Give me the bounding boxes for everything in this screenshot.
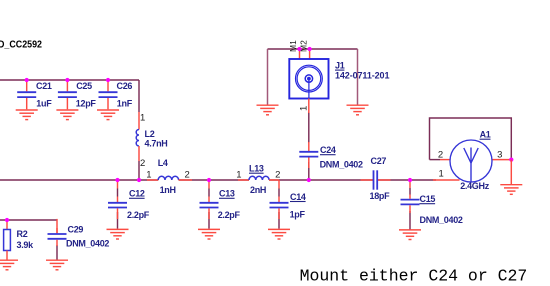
capacitor C14	[270, 180, 289, 219]
wire vertical from top net to L2	[138, 80, 140, 112]
capacitor C26	[99, 80, 118, 109]
capacitor C25	[58, 80, 77, 109]
ground under C25	[56, 110, 78, 120]
capacitor C29	[48, 228, 67, 246]
wire C29 bottom to ground	[56, 245, 58, 260]
svg-text:C15: C15	[420, 194, 436, 204]
svg-text:C12: C12	[129, 189, 145, 199]
ground under C15	[399, 230, 421, 240]
svg-text:2.2pF: 2.2pF	[218, 210, 241, 220]
ground under C26	[97, 110, 119, 120]
svg-text:2nH: 2nH	[250, 185, 266, 195]
wire lower net to R2/C29 y=220	[0, 219, 57, 221]
wire C13 bottom to ground	[208, 212, 210, 229]
svg-text:C14: C14	[290, 192, 306, 202]
wire J1 pin1 to C24	[308, 112, 310, 143]
wire C15 bottom to ground	[409, 211, 411, 230]
ground under C14	[268, 229, 290, 239]
svg-text:1: 1	[236, 170, 241, 181]
svg-text:DNM_0402: DNM_0402	[420, 215, 463, 225]
svg-text:2: 2	[275, 170, 280, 181]
ground under C21	[16, 110, 38, 120]
svg-text:C29: C29	[68, 225, 84, 235]
junction dot lower net at R2	[5, 218, 9, 222]
wire antenna pin3 to ground	[510, 160, 512, 184]
inductor L13	[238, 176, 279, 180]
svg-text:DNM_0402: DNM_0402	[320, 160, 363, 170]
ground J1 shield right	[347, 105, 369, 115]
svg-text:C21: C21	[36, 81, 52, 91]
wire C24 bottom to main net	[308, 162, 310, 180]
svg-text:2: 2	[438, 149, 443, 160]
svg-text:D_CC2592: D_CC2592	[0, 40, 42, 51]
capacitor C21	[17, 80, 36, 109]
ground at antenna pin3	[500, 185, 522, 195]
ground J1 shield left	[257, 105, 279, 115]
junction dot top net at C25	[65, 78, 69, 82]
wire antenna loop pin2 to pin3/ground	[430, 118, 512, 160]
junction dot main net at L2	[137, 178, 141, 182]
wire C14 bottom to ground	[278, 212, 280, 229]
wire top net segment y=80	[0, 79, 139, 81]
junction dot J1 shield M2	[308, 47, 312, 51]
svg-text:2.2pF: 2.2pF	[127, 210, 150, 220]
wire corner down to C29	[56, 219, 58, 233]
capacitor C13	[200, 180, 219, 219]
wire J1 shield left drop to ground	[267, 49, 269, 105]
svg-text:J1: J1	[335, 60, 345, 70]
inductor L2	[136, 112, 139, 180]
capacitor C12	[108, 180, 127, 219]
svg-text:C26: C26	[117, 81, 133, 91]
svg-text:A1: A1	[480, 130, 491, 140]
junction dot main net at C12	[115, 178, 119, 182]
svg-text:1: 1	[140, 113, 145, 124]
svg-text:4.7nH: 4.7nH	[145, 139, 168, 149]
antenna A1	[430, 140, 512, 182]
ground under C13	[198, 229, 220, 239]
svg-text:18pF: 18pF	[370, 191, 391, 201]
svg-text:1nF: 1nF	[117, 98, 133, 108]
svg-text:142-0711-201: 142-0711-201	[335, 70, 389, 80]
wire C12 bottom to ground	[117, 212, 119, 229]
svg-text:R2: R2	[17, 229, 28, 239]
junction dot top net at C21	[25, 78, 29, 82]
resistor R2	[4, 220, 11, 260]
svg-text:2: 2	[140, 158, 145, 169]
wire J1 shield right drop to ground	[357, 49, 359, 105]
capacitor C24	[299, 142, 318, 168]
svg-text:L4: L4	[158, 158, 168, 168]
svg-text:Mount either C24 or C27: Mount either C24 or C27	[300, 267, 528, 286]
svg-text:2: 2	[185, 170, 190, 181]
svg-text:L2: L2	[145, 129, 155, 139]
junction dot antenna pin3	[509, 158, 513, 162]
ground under R2	[0, 260, 18, 270]
junction dot main net at C15	[408, 178, 412, 182]
svg-text:1: 1	[439, 169, 444, 180]
svg-text:3: 3	[497, 149, 502, 160]
svg-text:M1: M1	[288, 40, 298, 52]
svg-text:C25: C25	[76, 81, 92, 91]
ground under C12	[107, 229, 129, 239]
svg-text:3.9k: 3.9k	[17, 240, 35, 250]
wire J1 shield net y=49	[268, 48, 358, 50]
svg-text:1pF: 1pF	[290, 210, 306, 220]
svg-text:C24: C24	[320, 145, 336, 155]
svg-text:1uF: 1uF	[36, 98, 52, 108]
svg-text:C13: C13	[219, 189, 235, 199]
connector J1	[289, 49, 328, 113]
svg-text:12pF: 12pF	[76, 98, 97, 108]
junction dot top net at C26	[106, 78, 110, 82]
svg-text:2.4GHz: 2.4GHz	[460, 181, 490, 191]
svg-text:1nH: 1nH	[160, 185, 176, 195]
capacitor C15	[401, 180, 420, 213]
ground under C29	[46, 260, 68, 270]
wire main RF net y=180	[0, 179, 436, 181]
junction dot main net at C24	[307, 178, 311, 182]
junction dot main net at C13	[207, 178, 211, 182]
svg-text:1: 1	[299, 106, 310, 111]
inductor L4	[147, 176, 192, 180]
svg-text:DNM_0402: DNM_0402	[66, 239, 109, 249]
svg-text:L13: L13	[249, 164, 264, 174]
svg-text:C27: C27	[371, 156, 387, 166]
svg-text:1: 1	[146, 170, 151, 181]
junction dot J1 shield M1	[297, 47, 301, 51]
capacitor C27 (series)	[361, 170, 391, 189]
